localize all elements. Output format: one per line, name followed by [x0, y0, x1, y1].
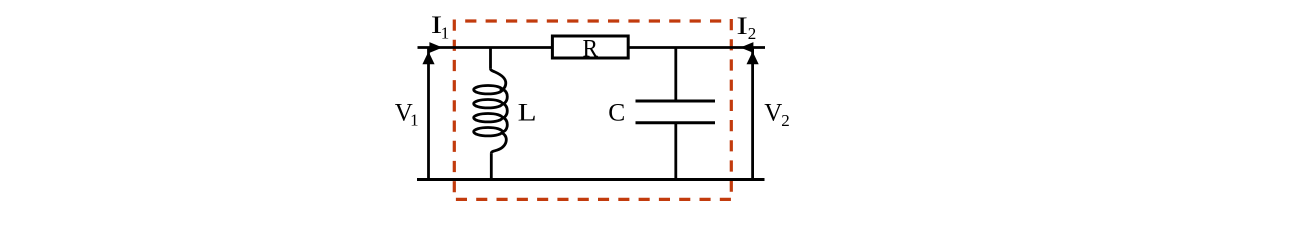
wire top right segment	[628, 46, 765, 49]
inductor L loop 4	[474, 128, 503, 136]
svg-text:1: 1	[441, 23, 450, 42]
voltage arrow V1 (points up)	[422, 52, 434, 65]
two-port dashed boundary box : right edge	[730, 19, 733, 199]
inductor L loop 1	[474, 86, 503, 94]
svg-text:I: I	[736, 13, 748, 40]
svg-text:1: 1	[410, 111, 419, 130]
wire left vertical (port 1)	[427, 48, 430, 180]
svg-text:C: C	[608, 99, 625, 126]
capacitor C top plate	[636, 100, 716, 103]
current arrow I2 (points left into box)	[740, 42, 753, 53]
wire top left segment	[418, 46, 553, 49]
inductor L top stub	[489, 48, 492, 69]
inductor L loop 2	[474, 100, 503, 108]
svg-text:R: R	[583, 36, 599, 63]
two-port dashed boundary box : left edge	[453, 20, 456, 200]
inductor L bottom stub	[490, 153, 493, 179]
inductor L right connecting arc 3-4	[502, 118, 507, 132]
capacitor C bottom stub	[674, 123, 677, 180]
inductor L top hook	[491, 69, 506, 91]
svg-text:2: 2	[781, 111, 790, 130]
capacitor C top stub	[674, 48, 677, 102]
two-port dashed boundary box : top edge	[465, 19, 731, 22]
inductor L right connecting arc 2-3	[502, 104, 507, 118]
wire bottom segment	[417, 178, 765, 181]
svg-text:2: 2	[748, 24, 757, 43]
svg-text:V: V	[764, 99, 782, 126]
current arrow I1 (points right into box)	[429, 42, 442, 53]
inductor L loop 3	[474, 114, 503, 122]
resistor R body	[552, 36, 628, 58]
wire right vertical (port 2)	[751, 48, 754, 180]
inductor L bottom hook	[491, 133, 506, 154]
inductor L right connecting arc 1-2	[502, 90, 507, 104]
capacitor C bottom plate	[636, 121, 716, 124]
voltage arrow V2 (points up)	[747, 52, 759, 65]
two-port dashed boundary box : bottom edge	[456, 198, 731, 201]
svg-text:L: L	[518, 99, 537, 126]
